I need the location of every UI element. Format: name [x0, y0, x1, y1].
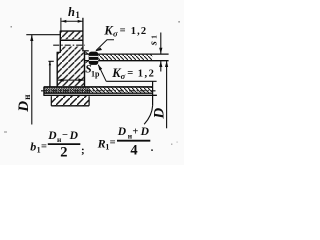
svg-text:D: D: [151, 108, 167, 120]
svg-text:s: s: [148, 41, 159, 46]
svg-text:D: D: [47, 130, 57, 142]
svg-text:;: ;: [81, 145, 85, 157]
svg-text:1,2: 1,2: [138, 69, 156, 80]
svg-text:σ: σ: [113, 28, 118, 38]
svg-text:4: 4: [130, 143, 137, 159]
svg-text:σ: σ: [121, 71, 126, 81]
svg-text:1: 1: [75, 10, 80, 20]
svg-text:.: .: [151, 142, 154, 154]
svg-text:2: 2: [60, 145, 67, 161]
svg-text:+: +: [132, 127, 138, 138]
svg-text:=: =: [41, 141, 47, 152]
svg-text:b: b: [30, 140, 36, 154]
svg-text:1: 1: [150, 35, 159, 39]
svg-text:D: D: [16, 101, 32, 113]
svg-text:1: 1: [37, 146, 41, 155]
svg-text:=: =: [127, 68, 133, 79]
svg-text:1p: 1p: [91, 69, 100, 78]
svg-text:н: н: [22, 95, 32, 100]
svg-text:1,2: 1,2: [131, 26, 147, 37]
svg-text:D: D: [117, 126, 127, 138]
svg-text:D: D: [140, 126, 150, 138]
svg-text:D: D: [69, 130, 79, 142]
svg-text:h: h: [68, 5, 75, 19]
svg-text:=: =: [120, 26, 126, 37]
svg-text:−: −: [62, 130, 68, 141]
svg-text:R: R: [97, 136, 106, 150]
svg-text:=: =: [110, 137, 116, 148]
